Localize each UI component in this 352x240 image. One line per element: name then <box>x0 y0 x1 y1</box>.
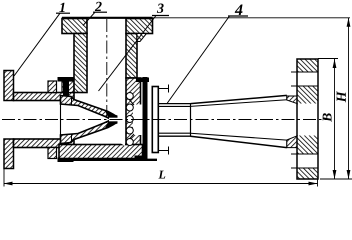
body right column <box>126 78 141 159</box>
horizontal centerline <box>2 119 331 121</box>
throat outer bottom <box>158 135 190 137</box>
nozzle joint line lower <box>71 135 73 143</box>
nozzle upper wall <box>61 96 114 119</box>
throat bore top <box>158 105 190 107</box>
bottom right ext line <box>320 178 352 180</box>
throat flange bolt lines <box>158 88 169 90</box>
vertical centerline <box>106 19 108 123</box>
nozzle lower wall <box>61 121 114 144</box>
label B <box>323 113 332 122</box>
flange pair boss top right plate <box>62 81 74 93</box>
flange pair boss bottom left plate <box>48 148 57 159</box>
dimension B <box>334 59 336 179</box>
flange-to-wall chamfer <box>137 34 147 42</box>
end plate (black) <box>143 77 148 159</box>
throat joint <box>190 104 192 137</box>
supply pipe bottom wall <box>14 139 75 148</box>
diffuser end bottom vertical <box>286 140 288 148</box>
nozzle joint line upper <box>71 97 73 105</box>
label 1 <box>59 3 64 12</box>
nozzle exit slot <box>109 118 118 122</box>
suction flange top edge <box>62 17 153 19</box>
diffuser outer bottom <box>191 136 287 147</box>
mixing chamber bore slot (white) <box>133 105 143 136</box>
suction flange right block <box>126 19 153 34</box>
body bottom thick edge <box>59 159 157 161</box>
dimension L <box>4 169 318 187</box>
diffuser end top vertical <box>286 95 288 100</box>
right flange hub bottom <box>287 136 298 148</box>
diffuser outer top <box>191 95 287 103</box>
supply pipe top wall <box>14 93 75 101</box>
right flange top ext line <box>318 58 338 60</box>
bolt top (black) <box>58 77 74 97</box>
label 3 <box>157 4 164 13</box>
throat flange bolt nut ticks <box>168 85 170 93</box>
right flange hub top <box>287 96 298 104</box>
throat bore bottom <box>158 132 190 134</box>
label 2 <box>95 2 102 11</box>
left flange lower plate <box>4 139 14 169</box>
diffuser bore bottom <box>191 133 288 140</box>
suction pipe left wall <box>74 34 87 93</box>
mixing chamber bell gap (white) <box>119 92 126 146</box>
label 4 <box>235 4 243 15</box>
right flange bolt hole lines <box>291 72 318 168</box>
dimension H <box>348 18 350 179</box>
end plate bolt head top <box>136 78 149 83</box>
suction flange left block <box>62 19 87 34</box>
leader 3 <box>99 16 157 92</box>
throat outer top <box>158 103 190 105</box>
chamber inlet cone lines <box>127 97 134 105</box>
nozzle base face line <box>60 101 62 140</box>
bolt bottom (black) <box>58 142 74 162</box>
body bottom wall <box>59 145 143 159</box>
chamber thread scallops <box>126 93 133 146</box>
leader 2 <box>83 12 95 25</box>
left flange upper plate <box>4 71 14 101</box>
top extension line <box>153 17 351 19</box>
label H <box>337 91 346 102</box>
diffuser bore top <box>191 100 288 107</box>
nozzle tip <box>105 111 118 128</box>
leader 4 <box>167 16 230 104</box>
end plate bolt head bottom <box>135 156 148 161</box>
suction pipe right wall <box>126 34 137 79</box>
throat flange <box>152 87 158 153</box>
right flange plate <box>297 59 318 179</box>
label L <box>158 171 165 179</box>
leader 1 <box>14 13 60 76</box>
flange pair boss bottom right plate <box>62 148 74 159</box>
flange pair boss top left plate <box>48 81 57 93</box>
